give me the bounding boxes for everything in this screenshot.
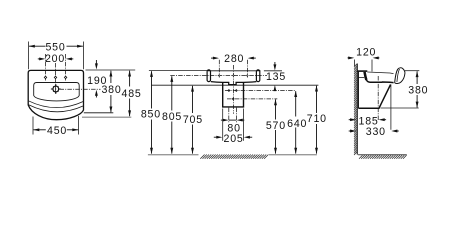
dimension 485 line — [129, 71, 131, 87]
svg-text:550: 550 — [45, 42, 65, 54]
drain target circle — [53, 86, 59, 92]
basin back edge — [357, 71, 359, 109]
tap hole center — [54, 76, 58, 80]
dimension 80 arrows — [221, 119, 224, 121]
svg-text:380: 380 — [101, 84, 121, 96]
dimension 710 line — [316, 86, 318, 113]
dimension 185 arrows — [349, 119, 352, 121]
svg-text:850: 850 — [141, 109, 161, 121]
640 reference centerline — [225, 90, 296, 92]
705-710 bracket reference line — [151, 84, 318, 86]
rear rim step line — [359, 77, 364, 79]
svg-text:805: 805 — [162, 111, 182, 123]
dimension 205 arrows — [214, 136, 218, 138]
wall hatch — [354, 64, 357, 155]
bar hole right — [246, 74, 249, 77]
basin rear top ledge — [357, 70, 367, 72]
extension centerline 280 right — [247, 60, 249, 78]
basin bar top line — [208, 70, 261, 72]
dimension 550 arrows — [29, 45, 35, 48]
basin contour arc 1 — [28, 101, 83, 108]
centerline middle vertical — [232, 65, 234, 114]
dimension 330 arrows — [349, 130, 352, 132]
basin inner rim — [34, 83, 79, 101]
floor line middle right segment — [269, 154, 317, 156]
svg-text:570: 570 — [266, 120, 286, 132]
dimension 450 line — [33, 129, 45, 131]
floor line right view — [358, 154, 407, 156]
tap hole right — [64, 76, 68, 80]
380 bottom reference line — [84, 112, 114, 114]
svg-text:330: 330 — [366, 126, 386, 138]
box hole left — [227, 89, 230, 92]
svg-text:200: 200 — [45, 53, 65, 65]
dimension 640 line — [295, 91, 297, 116]
805 reference centerline — [170, 74, 267, 76]
dimension 205 extension lines — [222, 109, 224, 141]
centerline basin vertical — [55, 63, 57, 95]
basin bar left cap — [207, 70, 210, 82]
dimension 850 line — [151, 71, 153, 108]
gray base line under left basin — [82, 116, 131, 118]
svg-text:380: 380 — [408, 84, 428, 96]
dimension 120 extension left — [354, 60, 356, 67]
floor line middle left segment — [148, 154, 199, 156]
wall line — [356, 64, 358, 155]
basin outer outline — [28, 70, 83, 119]
dimension 550 line — [29, 45, 46, 47]
dimension 280 arrows and stubs — [211, 57, 215, 59]
dimension 705 line — [192, 86, 194, 113]
extension line 450 left — [32, 117, 34, 135]
dimension 135 top arrow — [274, 62, 276, 67]
basin contour arc 2 — [28, 105, 83, 112]
extension line 550 right — [82, 42, 84, 70]
drain centerline horizontal — [60, 88, 101, 90]
dimension 80 centerline extensions — [228, 108, 230, 123]
extension line 450 right — [78, 116, 80, 135]
bar hole center — [232, 74, 235, 77]
basin bar underside with pipe notch — [211, 82, 256, 85]
dimension 805 line — [171, 76, 173, 110]
svg-text:705: 705 — [183, 114, 203, 126]
svg-text:280: 280 — [224, 53, 244, 65]
dimension 190 top arrow — [95, 60, 97, 66]
extension line 550 left — [28, 42, 30, 70]
centerline tap hole left — [45, 54, 47, 81]
drain diagonal ticks — [53, 86, 58, 91]
svg-text:135: 135 — [266, 71, 286, 83]
380 top reference line — [405, 70, 419, 72]
floor hatch right view — [359, 155, 407, 159]
basin underside — [358, 84, 390, 108]
380 bottom reference line — [381, 107, 419, 109]
dimension 330 extension line — [390, 85, 392, 130]
svg-text:205: 205 — [224, 133, 244, 145]
svg-text:450: 450 — [47, 125, 67, 137]
box hole lower — [232, 97, 235, 100]
svg-text:120: 120 — [356, 47, 376, 59]
svg-text:640: 640 — [287, 118, 307, 130]
basin top extension line right — [86, 69, 136, 71]
850 reference line — [149, 70, 208, 72]
dimension 570 line — [275, 99, 277, 119]
bowl bottom line — [366, 79, 394, 83]
svg-text:710: 710 — [307, 113, 327, 125]
dimension 135 bottom arrow — [273, 85, 276, 91]
basin bar right cap — [256, 70, 259, 82]
tap hole left — [44, 76, 48, 80]
dimension 200 arrows (outside) — [38, 58, 41, 60]
dimension 120 extension right — [371, 60, 373, 72]
extension centerline 280 left — [218, 60, 220, 78]
front lip inner line — [397, 69, 400, 82]
centerline tap hole right — [65, 54, 67, 81]
svg-text:485: 485 — [122, 88, 142, 100]
drain axis centerline — [377, 76, 379, 121]
box hole right — [235, 89, 238, 92]
dimension 380 line right view — [416, 71, 418, 84]
570 reference centerline — [227, 98, 277, 100]
drain target ticks — [51, 88, 54, 90]
dimension 380 line — [110, 71, 112, 83]
bar hole left — [218, 74, 221, 77]
floor hatch middle — [200, 155, 268, 159]
135 top reference line — [264, 70, 282, 72]
rim top surface line — [367, 72, 393, 74]
dimension 190 bottom arrow — [95, 90, 98, 96]
dimension 120 line and arrows — [348, 57, 351, 59]
mounting box — [223, 82, 244, 107]
front lip outer — [395, 68, 405, 84]
bowl rear wall — [365, 72, 367, 80]
